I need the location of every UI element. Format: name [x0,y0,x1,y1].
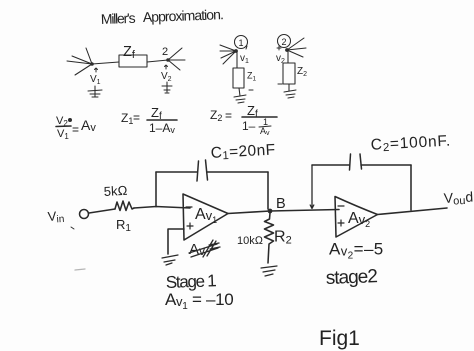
label C1=20nF [210,141,276,162]
eq1 V2/V1 = Av [56,115,96,141]
circle 2 [278,35,291,48]
svg-text:Fig1: Fig1 [319,327,360,350]
svg-text:1: 1 [239,38,244,48]
C2 top wire right [361,164,411,166]
C2 right vertical [410,165,412,210]
label +v2 [277,46,281,50]
U2 plus [338,220,344,226]
ground U1 [162,255,178,265]
U1 + input wire to ground [168,229,184,254]
U1 Av1 label [195,206,217,225]
V1 label with arrow [95,68,98,72]
label 2 [162,46,168,58]
U2 minus [338,205,344,207]
resistor R1 [115,201,134,211]
svg-text:B: B [276,196,286,212]
ground R2 [261,266,277,276]
input terminal [80,210,89,219]
node 1 star (left node of two-port) [67,48,92,75]
svg-text:Approximation.: Approximation. [143,6,224,25]
ground Z1 [234,95,246,103]
op-amp U2 [335,197,378,238]
C1 top wire right [207,171,268,173]
minus near Z1 ground [249,89,253,91]
label stage 2 [325,266,377,289]
resistor Z1 [233,68,244,88]
op-amp U1 [183,194,228,240]
label v1' [240,53,249,65]
svg-text:Miller's: Miller's [101,10,136,27]
eq2 Z1 = Zf/(1-Av) [121,105,175,135]
label Vin [47,208,65,226]
resistor R2 [265,213,274,263]
label Zf [123,44,136,61]
ground below V2 [162,82,172,93]
label 10kOhm [237,235,264,247]
label Av2=-5 [329,240,384,262]
label C2=100nF [370,133,451,155]
svg-text:stage2: stage2 [325,266,377,289]
resistor Zf [119,55,147,67]
title Miller's Approximation [101,6,224,27]
wire node B to U2 [270,210,339,212]
svg-text:2: 2 [282,37,287,47]
U1 plus [187,223,193,229]
resistor Z2 [283,63,295,84]
svg-text:Av2=–5: Av2=–5 [329,240,384,262]
label Z1 [247,71,257,83]
wire Zf to node 2 [147,60,168,62]
node V2' star [287,38,306,57]
wire Z1 to ground [239,88,240,96]
wire node1 to Zf [92,62,119,64]
label R2 [274,229,292,247]
ground below V1 [88,86,102,97]
svg-text:Av1 = –10: Av1 = –10 [165,290,233,312]
svg-text:Stage 1: Stage 1 [165,271,216,292]
C1 right vertical to node B [267,172,269,209]
capacitor C2 [350,154,362,170]
node V1' star [220,45,236,64]
wire node to Z2 [287,51,289,63]
label R1 [116,217,131,234]
faint dash [75,269,85,270]
wire terminal to R1 [89,209,115,213]
C1 top wire left [156,171,197,173]
U2 Av2 label [348,210,370,229]
ground Z2 [284,90,296,98]
svg-text:5kΩ: 5kΩ [103,183,127,199]
U1 minus [186,206,192,208]
node 2 star [168,48,185,70]
wire node to Z1 [236,52,238,68]
label Fig1 [319,327,360,350]
eq3 Z2 = Zf/(1 - 1/Av) [210,103,270,137]
circle 1 [235,36,248,49]
U1 output wire [228,211,270,214]
C1 branch vertical [155,172,157,207]
C2 top wire left [312,164,349,166]
label Stage 1 [165,271,216,292]
label Vout [443,188,473,208]
C2 branch vertical with arrow [310,165,314,209]
wire R1 to opamp [134,207,190,209]
svg-text:2: 2 [162,46,168,58]
label 5kOhm [103,183,127,199]
crossed out Av scribble [189,241,205,258]
V2 label with arrow [165,65,168,69]
minus near Z2 ground [278,83,282,85]
label Z2 [297,66,307,78]
label Av1=-10 [165,290,233,312]
capacitor C1 [197,160,208,181]
node B [268,209,273,214]
wire Z2 to ground [288,84,290,91]
svg-text:10kΩ: 10kΩ [237,235,264,247]
U2 output wire [378,208,448,215]
svg-text:1–: 1– [242,119,256,133]
